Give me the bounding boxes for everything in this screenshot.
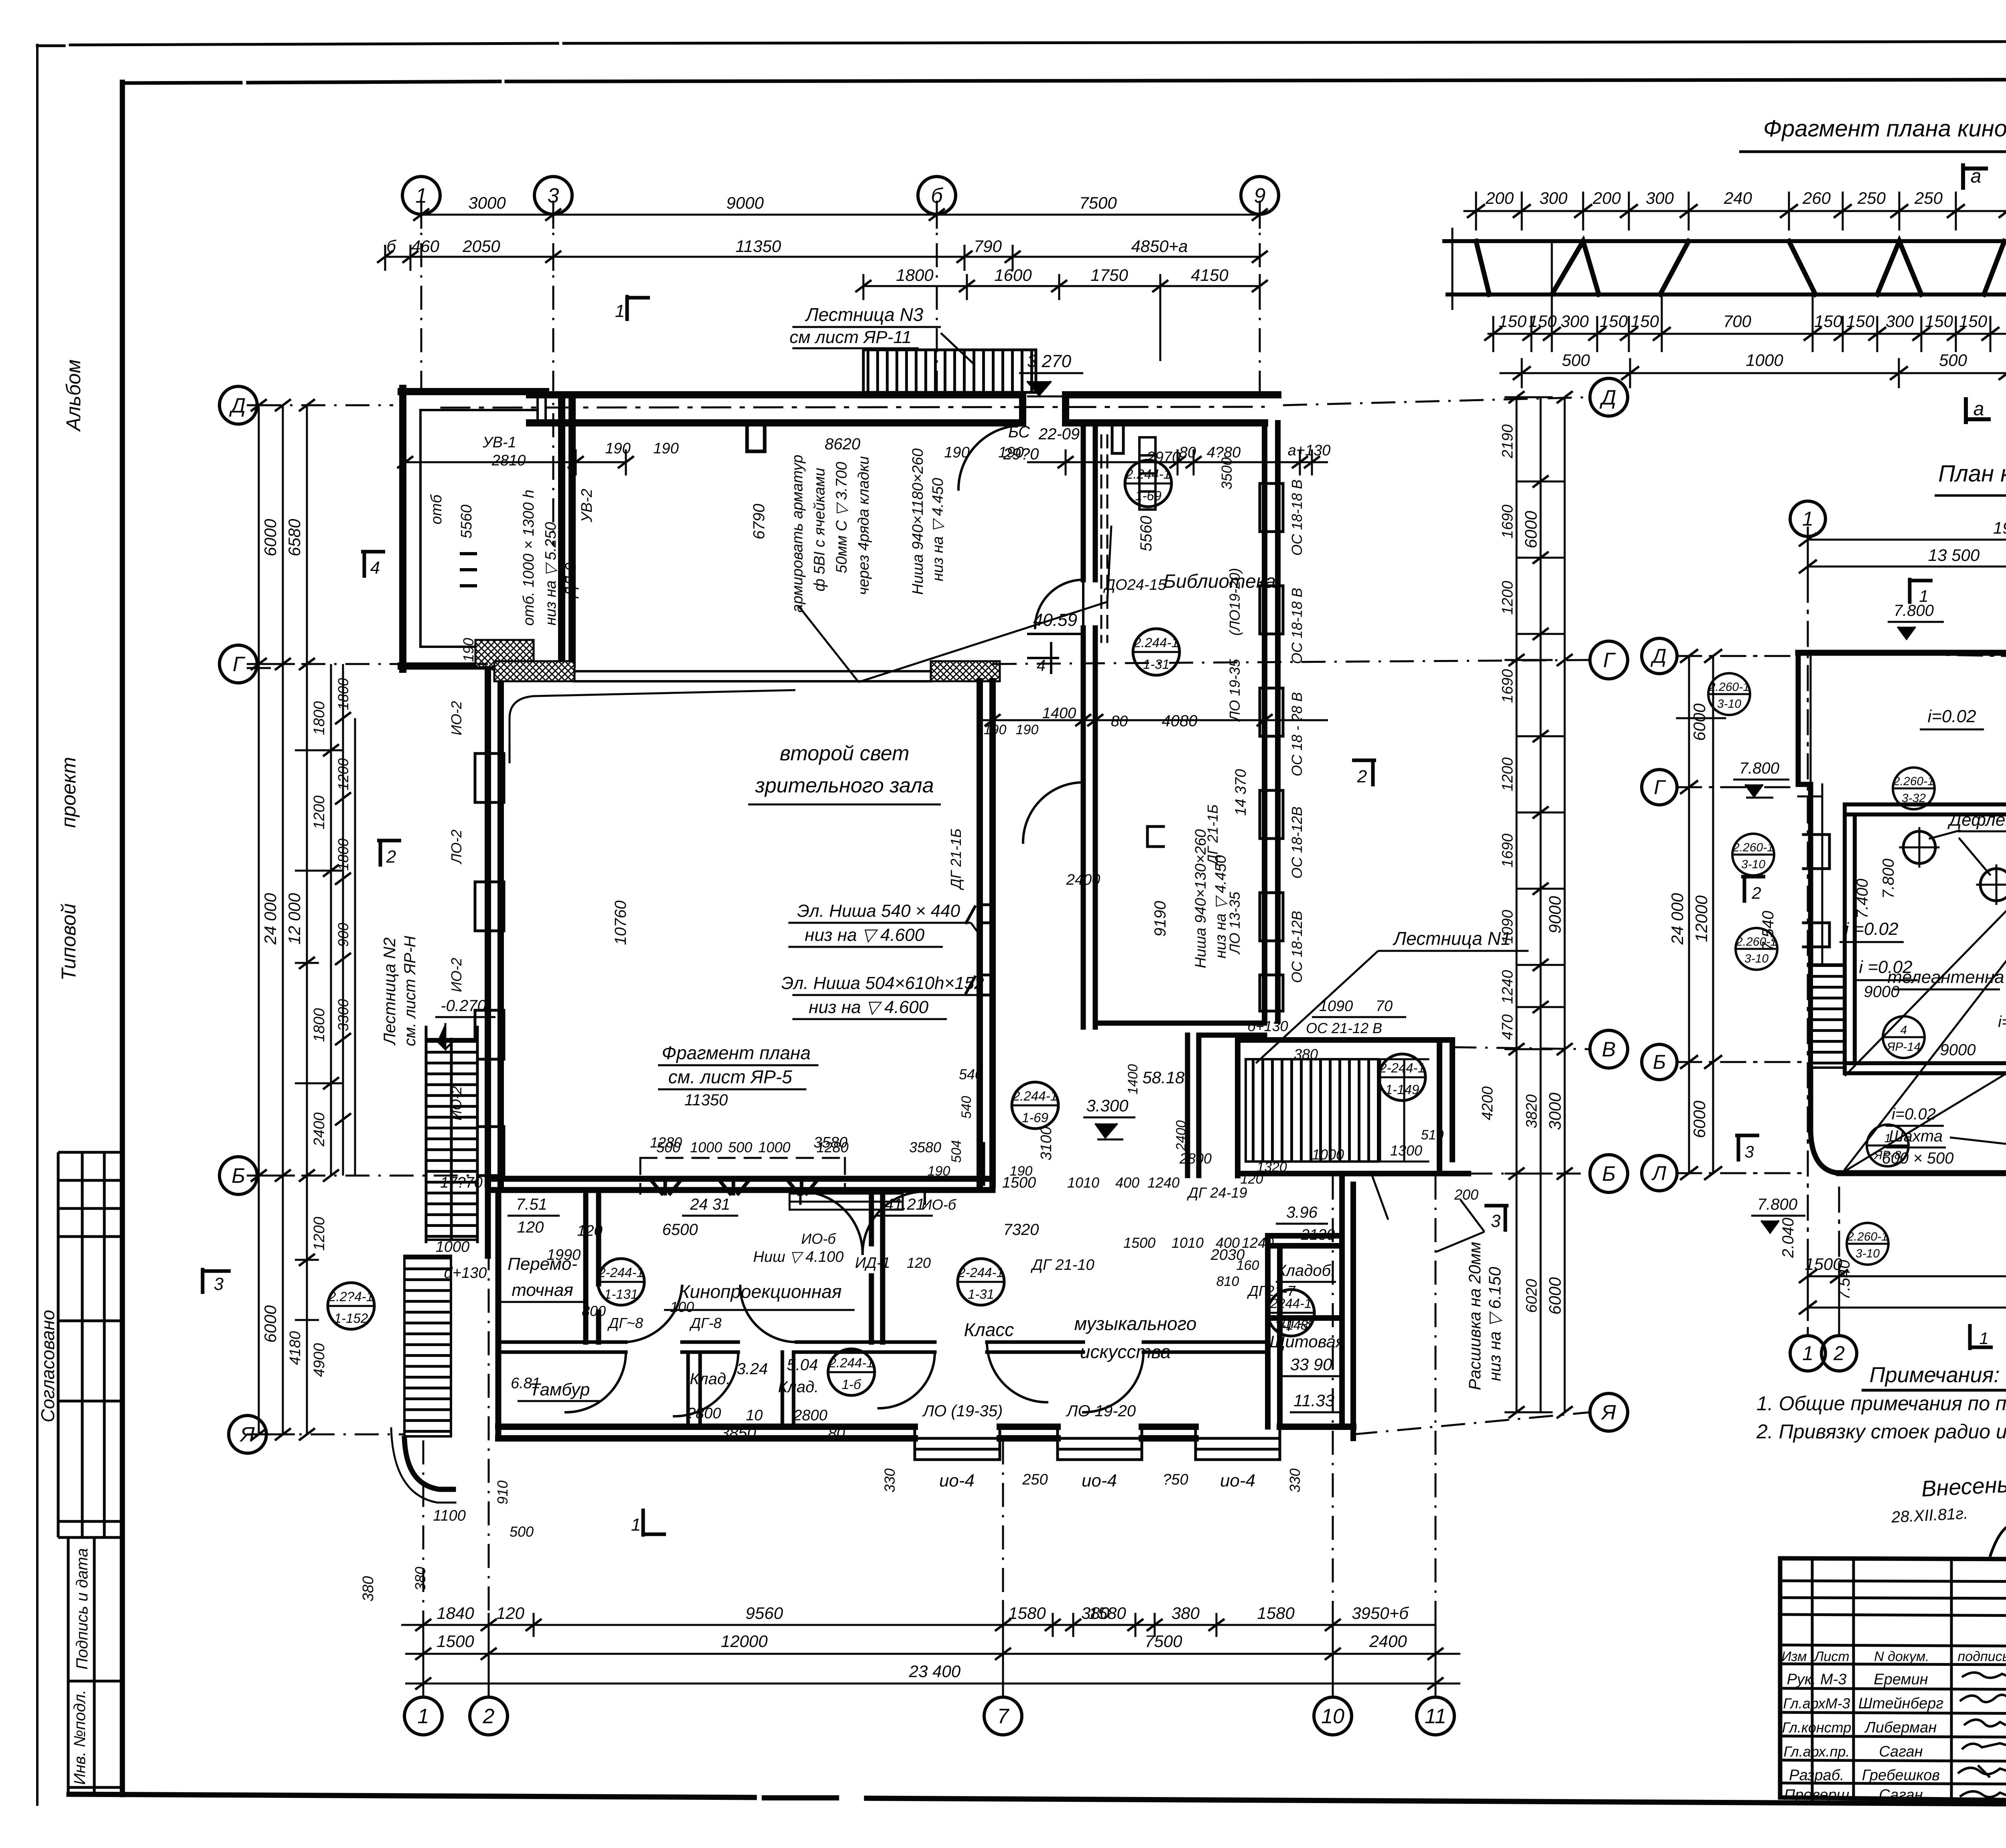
svg-text:1690: 1690 [1499,834,1516,868]
svg-text:150: 150 [1631,312,1659,331]
svg-text:10: 10 [746,1407,763,1424]
roof circled codes [1708,603,2006,1265]
svg-text:ОС 21-12 В: ОС 21-12 В [1306,1020,1382,1036]
svg-text:ио-4: ио-4 [939,1471,975,1491]
svg-text:190: 190 [1016,722,1039,737]
svg-text:1200: 1200 [1499,581,1516,615]
svg-text:Разраб.: Разраб. [1789,1767,1844,1784]
axis bubble 7 bottom [984,1697,1022,1735]
svg-text:7: 7 [997,1705,1010,1728]
fragment lower dim chain 1 [1488,241,2006,351]
svg-text:1-149: 1-149 [1385,1082,1419,1097]
svg-text:ОС 18-12В: ОС 18-12В [1289,911,1305,983]
roof axis bubble 1 top [1790,501,1825,536]
svg-text:Эл. Ниша 540 × 440: Эл. Ниша 540 × 440 [797,901,960,921]
svg-text:150: 150 [1529,312,1557,331]
svg-text:2244-1: 2244-1 [1270,1296,1312,1311]
svg-text:3 270: 3 270 [1027,351,1072,371]
deflector circle 2 [1980,869,2006,901]
svg-text:см лист ЯР-11: см лист ЯР-11 [790,327,912,347]
dimension chain left window ticks [343,664,355,1176]
svg-text:2: 2 [483,1705,495,1728]
circled fraction code 2.244-1/1-152 [328,1283,374,1329]
hall top wall piers hatched [494,661,575,681]
roof axis bubble Г left [1642,770,1677,805]
circled fraction code 2-244-1/1-149 [1379,1054,1425,1101]
svg-text:2190: 2190 [1499,424,1516,459]
svg-text:1000: 1000 [1746,351,1783,370]
svg-text:УВ-2: УВ-2 [579,489,595,522]
svg-text:зрительного зала: зрительного зала [755,774,934,797]
svg-text:6000: 6000 [261,519,280,556]
roof axis bubble Б left [1642,1044,1677,1080]
circled fraction code 2.244-1/1-69 [1125,460,1172,507]
svg-text:190: 190 [928,1164,950,1179]
svg-text:3-10: 3-10 [1856,1247,1880,1260]
dimension chain left col2 [295,405,343,1434]
svg-text:Фрагмент плана кинопроекци: Фрагмент плана кинопроекционной [1763,116,2006,142]
entrance corner rounded wall [404,1438,453,1489]
section flag 2 left [377,841,401,867]
svg-text:1280: 1280 [650,1134,682,1151]
axis bubble Г right [1590,641,1628,679]
svg-text:23 400: 23 400 [909,1662,961,1681]
roof dim chain top [1808,528,2006,579]
svg-text:ИО-2: ИО-2 [448,1086,465,1121]
fragment section mark a top [1963,165,1986,188]
title block signatures column squiggles [1958,1673,2006,1797]
svg-text:1: 1 [1979,1329,1988,1348]
svg-text:Г: Г [1654,776,1666,798]
svg-text:2. Привязку стоек радио: 2. Привязку стоек радио и телеантены см.… [1756,1420,2006,1443]
svg-text:Клад.: Клад. [778,1378,819,1396]
svg-text:1010: 1010 [1172,1235,1204,1251]
svg-text:33 90: 33 90 [1290,1355,1332,1374]
hall left wall with windows [488,669,501,1184]
title block revision table verticals [1812,1558,2006,1805]
svg-text:1500: 1500 [1123,1235,1155,1251]
svg-text:1200: 1200 [1499,757,1516,792]
svg-text:Г: Г [233,653,246,676]
svg-text:Подпись и дата: Подпись и дата [73,1548,91,1670]
fragment profile big trapezoid [1660,241,1815,294]
svg-text:2.260-1: 2.260-1 [1732,841,1774,854]
roof left lower rounded corner [1811,1131,1839,1173]
svg-text:19 500: 19 500 [1993,518,2006,537]
stair N3 treads outside top wall [863,350,1036,392]
svg-text:200: 200 [1592,189,1621,207]
svg-text:Ниш ▽ 4.100: Ниш ▽ 4.100 [753,1249,844,1265]
roof left parapet blocks [1803,835,1829,947]
svg-text:отб. 1000 × 1300 h: отб. 1000 × 1300 h [520,489,537,625]
svg-text:3580: 3580 [909,1139,941,1156]
stair N1 treads [1246,1059,1378,1162]
svg-text:Саган: Саган [1879,1743,1923,1760]
svg-text:70: 70 [1376,998,1393,1015]
svg-text:2.2?4-1: 2.2?4-1 [328,1289,374,1304]
svg-text:460: 460 [411,237,440,256]
entrance outside steps [404,1256,451,1436]
dimension chain bottom rows [401,1601,1460,1697]
svg-text:Лист: Лист [1813,1649,1850,1664]
svg-text:ИО-б: ИО-б [801,1231,837,1247]
svg-text:Либерман: Либерман [1864,1719,1937,1736]
projection ports dashed niche [640,1158,845,1194]
circled fraction code 2.244-1/1-131 [598,1259,644,1305]
svg-text:3950+б: 3950+б [1352,1604,1409,1623]
svg-text:2800: 2800 [793,1407,828,1424]
hall doors arcs [958,425,1143,1412]
svg-text:250: 250 [1914,189,1943,207]
svg-text:14 370: 14 370 [1232,769,1249,816]
svg-text:504: 504 [949,1140,964,1163]
svg-text:Клад.: Клад. [690,1370,731,1388]
svg-text:1800: 1800 [311,701,328,735]
svg-text:5560: 5560 [458,505,475,539]
svg-text:второй свет: второй свет [780,742,909,765]
svg-text:ЛО 19-35: ЛО 19-35 [1226,659,1243,722]
svg-text:1600: 1600 [994,266,1032,284]
svg-text:500: 500 [510,1523,534,1540]
svg-text:4200: 4200 [1479,1086,1496,1121]
svg-text:190: 190 [944,444,969,461]
svg-text:11350: 11350 [735,237,781,256]
svg-text:4080: 4080 [1162,712,1198,730]
svg-text:Примечания:: Примечания: [1870,1363,2000,1387]
svg-text:2.040: 2.040 [1779,1218,1797,1258]
svg-text:790: 790 [974,237,1002,256]
svg-text:Дефлекторы ф 800: Дефлекторы ф 800 [1947,810,2006,830]
axis bubble 10 bottom [1314,1697,1352,1735]
svg-text:1320: 1320 [1257,1160,1287,1175]
svg-text:армировать арматур: армировать арматур [789,455,806,613]
svg-text:Эл. Ниша 504×610h×152: Эл. Ниша 504×610h×152 [781,973,984,993]
svg-text:ДГ 21-1Б: ДГ 21-1Б [1204,804,1221,866]
svg-text:120: 120 [517,1218,544,1236]
hall interior round corner [510,690,794,762]
main top wall left part [530,395,1023,423]
svg-text:300: 300 [1886,312,1914,331]
svg-text:2.244-1: 2.244-1 [1012,1088,1058,1103]
svg-text:низ на ▽ 4.600: низ на ▽ 4.600 [809,997,929,1017]
fragment left small ticks [1452,229,1454,309]
svg-text:2800: 2800 [1179,1150,1212,1167]
svg-text:900: 900 [335,923,351,947]
library bottom wall [1095,1023,1265,1035]
svg-text:1-152: 1-152 [334,1311,368,1326]
roof outline bottom edge [1839,1160,2006,1173]
дверь кинопроекционная arcs [626,1286,796,1342]
axis bubble 11 bottom [1417,1697,1454,1735]
svg-text:ио-4: ио-4 [1220,1471,1255,1491]
dimension chain top row3 [863,274,1260,361]
section flag 2 right [1352,760,1376,786]
svg-text:1400: 1400 [1125,1064,1141,1095]
svg-text:6.81: 6.81 [511,1375,540,1392]
svg-text:510: 510 [1421,1127,1444,1143]
svg-text:Фрагмент плана: Фрагмент плана [662,1042,810,1063]
svg-text:Изм: Изм [1781,1649,1807,1664]
axis bubble Г left [219,645,257,683]
svg-text:1090: 1090 [1319,998,1353,1015]
svg-text:300: 300 [1539,189,1568,207]
svg-text:11: 11 [1425,1705,1446,1728]
wall top-left wing outline [401,388,572,669]
svg-text:Альбом: Альбом [62,359,85,432]
bottom windows ИО-4 [915,1428,1280,1460]
svg-text:330: 330 [881,1468,898,1493]
svg-text:1-31: 1-31 [968,1287,994,1302]
svg-text:1000: 1000 [758,1139,790,1156]
svg-text:б: б [386,237,396,256]
svg-text:1000: 1000 [1312,1146,1344,1163]
svg-text:2: 2 [1833,1342,1845,1365]
axis bubble 3 top [534,177,572,214]
inner frame top [122,79,2006,83]
svg-text:3-32: 3-32 [1902,792,1926,805]
svg-text:150: 150 [1600,312,1628,331]
svg-text:250: 250 [1857,189,1886,207]
fragment profile bottom chord [1448,292,2006,296]
svg-text:Д: Д [229,394,246,417]
svg-text:i =0.02: i =0.02 [1845,919,1898,939]
fragment profile top chord [1444,239,2006,243]
hall top inner line [575,671,931,681]
svg-text:200: 200 [1454,1186,1478,1203]
svg-text:1580: 1580 [1257,1604,1295,1623]
fragment dim texts [1485,166,2006,420]
axis bubble Б left [219,1157,257,1194]
svg-text:2.244-1: 2.244-1 [1133,635,1179,650]
svg-text:80: 80 [1179,444,1196,461]
inner frame bottom [69,1794,2006,1807]
svg-text:2400: 2400 [311,1113,328,1147]
sheet outer border top [37,41,2006,46]
svg-text:а: а [1971,166,1982,187]
svg-text:120: 120 [907,1255,931,1271]
svg-text:1200: 1200 [335,758,351,790]
svg-text:13 500: 13 500 [1928,546,1980,565]
wall top-left wing inner lines [420,392,546,669]
svg-text:ЯР-14: ЯР-14 [1886,1040,1921,1054]
svg-text:9000: 9000 [1940,1041,1976,1059]
svg-text:250: 250 [1022,1471,1048,1488]
stair N2 internal [426,1039,477,1240]
svg-text:120: 120 [577,1223,602,1239]
svg-text:540: 540 [959,1096,974,1119]
svg-text:11.33: 11.33 [1293,1391,1334,1410]
hall right wall [980,681,993,1184]
svg-text:12000: 12000 [721,1632,768,1651]
svg-text:подпись: подпись [1958,1649,2006,1664]
svg-text:1-131: 1-131 [604,1287,638,1302]
svg-text:2-244-1: 2-244-1 [958,1265,1004,1280]
svg-text:7.540: 7.540 [1835,1260,1853,1300]
svg-text:3: 3 [1744,1142,1754,1161]
svg-text:2.260-1: 2.260-1 [1893,775,1934,788]
svg-text:1: 1 [1802,508,1813,530]
dimension chain right col [1504,397,1565,1412]
svg-text:3300: 3300 [335,999,351,1031]
svg-text:ИД-1: ИД-1 [855,1255,890,1271]
svg-text:1200: 1200 [311,1217,328,1251]
svg-text:1: 1 [416,184,427,207]
svg-text:низ на ▽ 5.250: низ на ▽ 5.250 [542,522,559,625]
svg-text:160: 160 [1236,1258,1259,1273]
svg-text:Штейнберг: Штейнберг [1858,1695,1943,1712]
svg-text:ОС 18-12В: ОС 18-12В [1289,806,1305,879]
svg-text:УВ-1: УВ-1 [482,434,516,451]
svg-text:телеантенна: телеантенна [1887,967,2004,987]
title block revision table rows [1780,1581,2006,1784]
svg-text:240: 240 [1724,189,1752,207]
svg-text:3: 3 [214,1274,224,1294]
svg-text:1100: 1100 [433,1507,466,1524]
svg-text:ДГ~8: ДГ~8 [607,1315,643,1331]
svg-text:2970: 2970 [1146,449,1181,466]
roof axis bubble Д left [1642,638,1677,674]
svg-text:1010: 1010 [1067,1174,1099,1191]
svg-text:1-69: 1-69 [1022,1110,1048,1125]
section flag 4 left [361,552,385,578]
svg-text:1-69: 1-69 [1135,488,1161,503]
svg-text:12 000: 12 000 [285,893,304,944]
svg-text:50мм С ▽ 3.700: 50мм С ▽ 3.700 [833,462,850,573]
svg-text:Инв. №подл.: Инв. №подл. [71,1690,89,1785]
svg-text:ио-4: ио-4 [1082,1471,1117,1491]
svg-text:500: 500 [728,1139,752,1156]
axis bubble 1 bottom [404,1697,442,1735]
svg-text:План крыши: План крыши [1938,461,2006,487]
svg-text:200: 200 [1485,189,1514,207]
svg-text:3: 3 [1491,1211,1501,1231]
svg-text:1200: 1200 [311,796,328,830]
svg-text:6790: 6790 [750,504,768,540]
svg-text:6000: 6000 [261,1305,280,1343]
svg-text:1: 1 [418,1705,429,1728]
svg-text:ф 5ВI с ячейками: ф 5ВI с ячейками [811,468,828,591]
svg-text:2-244-1: 2-244-1 [1379,1060,1425,1075]
svg-text:Согласовано: Согласовано [37,1310,58,1423]
svg-text:17?70: 17?70 [440,1174,483,1191]
шахта блоки у стены left of library [1101,435,1107,642]
svg-text:8620: 8620 [825,435,861,453]
svg-text:6580: 6580 [285,519,304,556]
entrance corner second line [391,1428,455,1503]
svg-text:24 000: 24 000 [261,893,280,945]
door ИД-1 double arcs hall bottom [800,1192,925,1254]
svg-text:3-10: 3-10 [1744,952,1768,965]
svg-text:через 4ряда кладки: через 4ряда кладки [855,456,872,595]
fragment top dim chain [1464,193,2006,229]
svg-text:190: 190 [605,440,630,457]
svg-text:Д: Д [1650,645,1666,667]
inner frame left [120,82,125,1795]
svg-text:искусства: искусства [1080,1341,1171,1362]
svg-text:1500: 1500 [437,1632,474,1651]
section flag 3 left [203,1268,231,1294]
svg-text:Г: Г [1603,649,1616,672]
roof dim chain bottom [1808,1264,2006,1320]
вентблоки прямоугольники в верхней стене [1139,437,1155,510]
projection ports trapezoids [650,1179,818,1194]
svg-text:6000: 6000 [1545,1277,1564,1315]
svg-text:1800: 1800 [335,839,351,871]
axis vertical dash-dot lines top [421,201,1260,546]
svg-text:4: 4 [1037,657,1046,674]
svg-text:Типовой: Типовой [57,904,80,981]
dimension chain top row2 [385,245,1260,271]
roof section flag 2 left [1741,877,1765,903]
svg-text:Я: Я [1600,1401,1616,1424]
roof diagonals [1845,658,2006,1171]
svg-text:N докум.: N докум. [1874,1649,1929,1664]
svg-text:d+130: d+130 [444,1265,487,1281]
axis horizontal dash-dot lines [257,397,1590,1434]
svg-text:Библиотека: Библиотека [1163,571,1276,592]
axis bubble 2 bottom [470,1697,508,1735]
library left wall [1083,423,1095,1027]
svg-text:10: 10 [1321,1705,1344,1728]
roof outline left edge [1798,653,1811,1131]
svg-text:500: 500 [1562,351,1590,370]
roof axis bubble А left [1642,1156,1677,1191]
svg-text:а: а [1974,398,1984,420]
svg-text:1. Общие примечания по: 1. Общие примечания по плану II эт. см. … [1756,1392,2006,1415]
stair N1 block walls [1238,1040,1468,1176]
roof outline top edge [1798,650,2006,656]
circled fraction code 2.244-1/1-6 [828,1349,875,1395]
svg-text:330: 330 [1287,1468,1303,1493]
svg-text:2.244-1: 2.244-1 [1125,467,1171,481]
svg-text:Саган: Саган [1879,1787,1923,1803]
svg-text:ЯР-8: ЯР-8 [1873,1149,1901,1162]
svg-text:800: 800 [582,1303,606,1319]
svg-text:7.400: 7.400 [1854,879,1871,919]
roof dim texts [1668,518,2006,1306]
svg-text:ДГ 21-10: ДГ 21-10 [1030,1257,1094,1273]
svg-text:380: 380 [1172,1604,1200,1623]
svg-text:музыкального: музыкального [1074,1313,1197,1334]
bottom rooms partition перемоточная right [586,1190,599,1342]
svg-text:9000: 9000 [726,193,764,212]
svg-text:400: 400 [1216,1235,1240,1251]
svg-text:7.800: 7.800 [1739,760,1779,777]
roof section flag 1 bottom [1970,1324,1993,1350]
svg-text:9560: 9560 [745,1604,783,1623]
svg-text:3.24: 3.24 [737,1360,768,1378]
axis vertical dash-dot lines bottom [423,1176,1435,1691]
svg-text:120: 120 [496,1604,525,1623]
svg-text:ДЛ-9: ДЛ-9 [562,563,579,599]
svg-text:ОС 18-18 В: ОС 18-18 В [1289,479,1305,556]
svg-text:1240: 1240 [1242,1235,1274,1251]
section flag 3 right [1484,1206,1509,1232]
svg-text:190: 190 [1010,1164,1033,1179]
svg-text:ЛО 13-35: ЛО 13-35 [1226,892,1243,955]
svg-text:22-09: 22-09 [1038,425,1080,443]
fragment profile triangle 1 [1552,241,1599,294]
svg-text:ДО24-15: ДО24-15 [1103,577,1166,593]
svg-text:Я: Я [239,1423,255,1446]
svg-text:1-б: 1-б [842,1377,861,1392]
svg-text:6000: 6000 [1690,703,1709,741]
svg-text:6000: 6000 [1521,511,1540,548]
svg-text:1-148: 1-148 [1274,1318,1308,1332]
svg-text:Еремин: Еремин [1874,1671,1928,1688]
fragment section mark a bottom [1966,399,1989,422]
svg-text:4850+а: 4850+а [1131,237,1188,256]
